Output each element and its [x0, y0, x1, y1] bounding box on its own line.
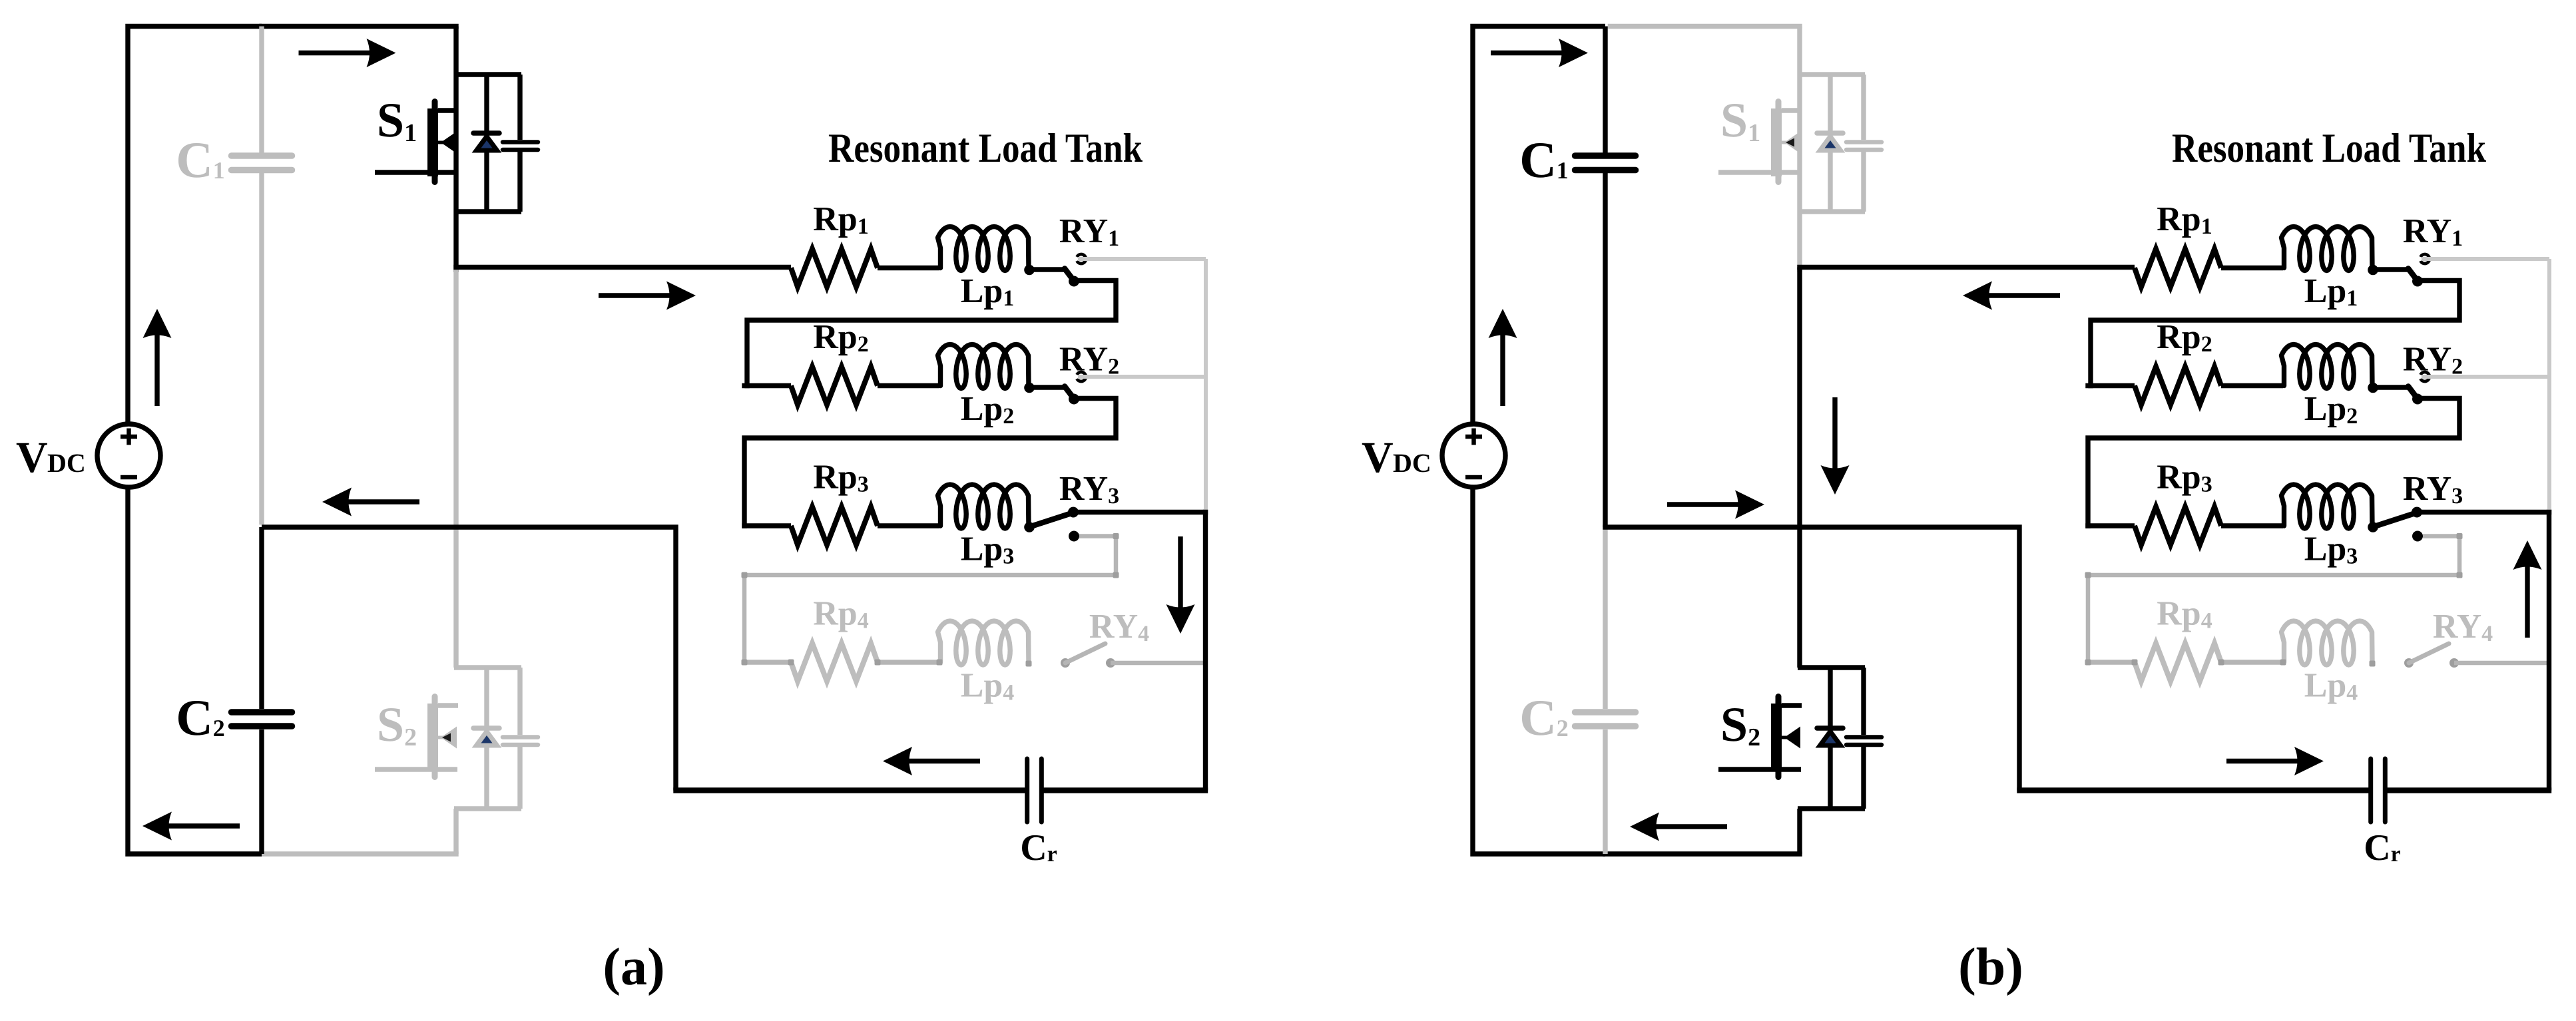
- resistor Rp1 (a): [791, 249, 878, 287]
- relay RY1 NO wire (gray): [1078, 257, 1206, 261]
- current arrow top (b, right): [1491, 51, 1566, 55]
- wire Rp3 to Lp3: [878, 523, 939, 528]
- inductor Lp1 (b): [2282, 227, 2373, 271]
- wire loop row1-row2 (black): [2091, 281, 2459, 389]
- relay RY1 (b): [2368, 265, 2378, 276]
- wire VDC top-left loop (b): [1473, 27, 1605, 425]
- resistor Rp1 (b): [2135, 249, 2221, 287]
- svg-text:Resonant Load Tank: Resonant Load Tank: [2172, 126, 2486, 171]
- svg-text:(a): (a): [603, 938, 664, 996]
- wire RY4 to right vertical (gray): [1111, 661, 1206, 666]
- relay gray bus vertical: [1204, 259, 1208, 512]
- resistor Rp3 (a): [742, 523, 791, 528]
- resistor Rp2 (a): [742, 383, 791, 388]
- wire loop row3-row4 (gray): [744, 536, 1116, 665]
- inductor Lp2 (a): [938, 345, 1029, 389]
- current arrow midwire (a, left): [344, 499, 419, 504]
- current arrow midwire (b, right): [1667, 502, 1742, 507]
- wire trunk below S2 (b): [1797, 809, 1802, 854]
- current arrow tank feed (a, right): [599, 293, 674, 298]
- relay RY3 (a): [1024, 522, 1035, 532]
- wire RY4 to right vertical (gray): [2454, 661, 2549, 666]
- inductor Lp2 (b): [2282, 345, 2373, 389]
- current arrow VDC (b, up): [1500, 331, 1505, 406]
- transistor S2 (a): [454, 665, 521, 670]
- wire loop row3-row4 (gray): [2088, 536, 2459, 665]
- wire right vertical (tank return): [2547, 510, 2551, 791]
- inductor Lp3 (a): [938, 485, 1029, 528]
- wire loop row2-row3 (black): [2088, 399, 2459, 528]
- wire RY3 to right vertical: [2417, 510, 2551, 514]
- voltage source VDC (a): [97, 424, 160, 487]
- wire VDC top-left loop (a): [128, 27, 262, 425]
- wire trunk lower (to S2) (b): [1797, 268, 1802, 668]
- wire trunk upper (S1 drain/source) (b): [1797, 27, 1802, 273]
- current arrow trunk (b, down): [1832, 397, 1837, 473]
- capacitor Cr (a): [1025, 759, 1029, 822]
- voltage source VDC (b): [1442, 424, 1505, 487]
- svg-text:Resonant Load Tank: Resonant Load Tank: [828, 126, 1143, 171]
- capacitor C2 (a): [232, 709, 292, 715]
- relay RY1 NO wire (gray): [2422, 257, 2549, 261]
- current arrow bottom-left (a, left): [164, 823, 240, 828]
- resistor Rp2 (b): [2085, 383, 2135, 388]
- svg-text:V: V: [16, 433, 48, 482]
- relay RY4 (b): [2404, 658, 2414, 668]
- current arrow right vertical (a, down): [1178, 536, 1182, 612]
- wire C1 branch (b): [1603, 27, 1607, 153]
- wire VDC bottom-left (a): [128, 487, 262, 854]
- capacitor C1 (b): [1575, 152, 1636, 159]
- transistor S2 (b): [1798, 665, 1865, 670]
- wire right vertical (tank return): [1203, 510, 1208, 791]
- wire S1 source to tank (b): [1797, 265, 2135, 270]
- capacitor C2 (b): [1575, 709, 1636, 715]
- wire S1 source to tank (a): [453, 265, 791, 270]
- current arrow bottom rail (b, left): [1652, 824, 1727, 829]
- wire trunk upper (S1 drain/source) (a): [453, 27, 458, 273]
- inductor Lp1 (a): [938, 227, 1029, 271]
- current arrow Cr (b, right): [2226, 759, 2302, 763]
- transistor S1 (b): [1798, 72, 1865, 77]
- wire C2 branch (b): [1603, 527, 1607, 709]
- inductor Lp4 (b): [2282, 621, 2373, 665]
- current arrow top (a, right): [299, 51, 374, 55]
- current arrow Cr (a, left): [905, 759, 980, 763]
- svg-text:(b): (b): [1958, 938, 2023, 996]
- wire top rail to S1 (b, gray): [1608, 24, 1802, 29]
- wire bottom tank rail right (b): [2385, 787, 2551, 793]
- wire midpoint to tank return (a): [262, 527, 676, 791]
- capacitor Cr (b): [2368, 759, 2373, 822]
- wire Rp1 to Lp1: [878, 266, 939, 270]
- inductor Lp3 (b): [2282, 485, 2373, 528]
- relay RY4 (a): [1061, 658, 1070, 668]
- wire C2 branch (a): [259, 527, 264, 709]
- wire trunk below S2 (a): [453, 809, 458, 854]
- wire bottom tank rail right (a): [1041, 787, 1208, 793]
- relay RY2 NO wire (gray): [2422, 375, 2549, 379]
- relay RY2 (b): [2368, 383, 2378, 393]
- wire C1 branch (a): [259, 27, 264, 153]
- wire bottom tank rail left (b): [2017, 787, 2370, 793]
- wire midpoint to tank return (b): [1603, 527, 2019, 791]
- relay RY1 (a): [1024, 265, 1035, 276]
- wire loop row1-row2 (black): [747, 281, 1116, 389]
- resistor Rp4 (b): [2085, 660, 2135, 664]
- wire loop row2-row3 (black): [744, 399, 1116, 528]
- wire Rp2 to Lp2: [878, 383, 939, 388]
- relay RY3 (b): [2368, 522, 2378, 532]
- wire Rp3 to Lp3: [2221, 523, 2283, 528]
- relay RY2 (a): [1024, 383, 1035, 393]
- relay gray bus vertical: [2547, 259, 2551, 512]
- svg-text:DC: DC: [47, 448, 86, 478]
- wire bottom rail C2 to S2 (b): [1603, 851, 1802, 856]
- current arrow tank feed (b, left): [1985, 293, 2060, 298]
- wire trunk lower (to S2) (a): [453, 268, 458, 668]
- wire Rp1 to Lp1: [2221, 266, 2283, 270]
- svg-text:V: V: [1362, 433, 1394, 482]
- inductor Lp4 (a): [938, 621, 1029, 665]
- wire bottom tank rail left (a): [673, 787, 1027, 793]
- wire RY3 to right vertical: [1073, 510, 1208, 514]
- wire Rp2 to Lp2: [2221, 383, 2283, 388]
- wire bottom rail C2 to S2 (a, gray): [262, 851, 459, 856]
- resistor Rp3 (b): [2085, 523, 2135, 528]
- wire Rp4 to Lp4: [878, 660, 939, 664]
- current arrow VDC (a, up): [154, 331, 159, 406]
- capacitor C1 (a): [232, 152, 292, 159]
- wire Rp4 to Lp4: [2221, 660, 2283, 664]
- current arrow right vertical (b, up): [2525, 562, 2529, 638]
- svg-text:DC: DC: [1393, 448, 1431, 478]
- transistor S1 (a): [454, 72, 521, 77]
- wire top rail to S1 (a): [259, 24, 458, 29]
- resistor Rp4 (a): [742, 660, 791, 664]
- wire VDC bottom-left (b): [1473, 487, 1605, 854]
- relay RY2 NO wire (gray): [1078, 375, 1206, 379]
